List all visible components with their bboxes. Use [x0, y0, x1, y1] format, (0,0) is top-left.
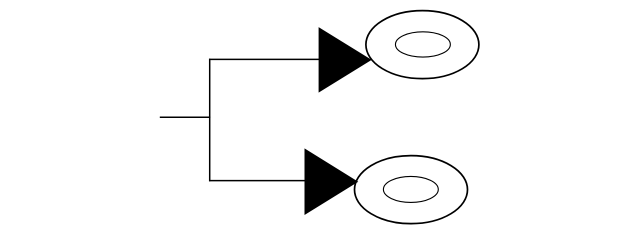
wire bottom branch — [209, 180, 305, 182]
toroid inner ellipse top — [395, 32, 450, 57]
toroid inner ellipse bottom — [383, 176, 438, 202]
amplifier triangle top — [319, 28, 371, 92]
wire input stub — [160, 116, 211, 118]
amplifier triangle bottom — [305, 149, 357, 214]
wire top branch — [209, 58, 320, 60]
toroid outer ellipse top — [366, 11, 479, 79]
toroid outer ellipse bottom — [355, 156, 468, 224]
wire vertical branch — [209, 59, 211, 182]
